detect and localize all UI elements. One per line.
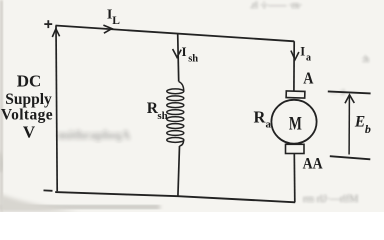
current arrow Ia on armature branch	[291, 51, 299, 60]
wire: top conductor from + terminal to armature branch corner	[56, 26, 295, 42]
wire: left vertical supply conductor	[56, 26, 57, 192]
svg-text:Voltage: Voltage	[1, 107, 53, 124]
motor M armature circle	[271, 100, 316, 144]
label Ish	[182, 44, 199, 64]
brush terminal block top of motor	[286, 91, 305, 98]
svg-text::h: :h	[362, 54, 370, 64]
inductor Rsh shunt field coil	[167, 82, 184, 147]
label Eb	[354, 114, 371, 136]
label Rsh	[147, 100, 168, 122]
label Ra	[254, 107, 272, 130]
svg-text:b: b	[365, 122, 371, 136]
svg-text:mithraploqA: mithraploqA	[58, 127, 131, 142]
svg-text:DC: DC	[17, 72, 42, 91]
wire: shunt field branch from top wire down to coil	[178, 34, 179, 82]
svg-text:AA: AA	[303, 155, 323, 172]
label Ia	[300, 45, 311, 64]
wire: shunt branch from coil to bottom wire	[178, 146, 180, 197]
svg-text:E: E	[354, 114, 365, 131]
up arrow on left supply wire	[52, 29, 59, 37]
- terminal (negative supply terminal)	[44, 189, 53, 191]
svg-text:A: A	[303, 69, 314, 88]
svg-text:sh: sh	[157, 110, 167, 122]
wire: bottom return conductor	[55, 192, 295, 202]
svg-text:I: I	[182, 44, 187, 59]
svg-text:M: M	[289, 113, 302, 134]
svg-text:Supply: Supply	[5, 91, 52, 108]
current arrow IL on top wire	[103, 25, 111, 33]
svg-text:a: a	[306, 52, 311, 63]
svg-text:rm rlJ·—rlfM: rm rlJ·—rlfM	[303, 194, 358, 205]
svg-text:L: L	[112, 15, 120, 27]
wire: armature branch from bottom brush to bottom wire	[293, 153, 296, 202]
Eb bracket bottom line	[330, 156, 371, 159]
svg-text:sh: sh	[188, 53, 198, 64]
label: DC Supply Voltage V	[1, 72, 53, 142]
svg-text:I: I	[300, 45, 305, 59]
label IL	[107, 8, 120, 27]
wire: armature branch from top corner down to brush	[293, 41, 295, 91]
+ terminal (positive supply terminal)	[44, 20, 52, 28]
svg-text:.rl ·i·—— ·rn·: .rl ·i·—— ·rn·	[250, 0, 302, 10]
Eb up arrow	[345, 95, 354, 155]
current arrow Ish on shunt branch	[173, 49, 182, 57]
Eb bracket top line	[328, 91, 371, 93]
brush terminal block bottom of motor	[286, 144, 305, 153]
svg-text:V: V	[23, 123, 36, 142]
